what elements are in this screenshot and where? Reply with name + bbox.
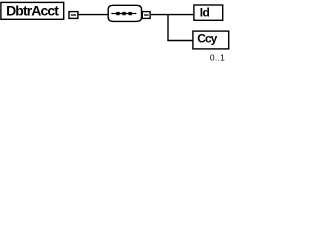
sequence compositor octagon bbox=[108, 5, 141, 21]
svg-text:Ccy: Ccy bbox=[197, 31, 217, 45]
sequence line bbox=[111, 13, 136, 15]
sequence dot 2 bbox=[122, 12, 125, 15]
sequence dot 3 bbox=[129, 12, 132, 15]
wire from DbtrAcct expand button to sequence bbox=[78, 14, 108, 16]
wire to Ccy bbox=[167, 40, 193, 42]
background bbox=[0, 0, 230, 73]
element box Id bbox=[194, 5, 223, 20]
expand button (sequence) bbox=[142, 12, 150, 19]
wire vertical branch bbox=[167, 14, 169, 41]
svg-text:0..1: 0..1 bbox=[210, 53, 225, 63]
element box DbtrAcct bbox=[1, 2, 64, 19]
svg-text:DbtrAcct: DbtrAcct bbox=[6, 3, 59, 19]
element box Ccy (optional) bbox=[193, 31, 229, 49]
svg-text:Id: Id bbox=[200, 6, 210, 20]
sequence dot 1 bbox=[116, 12, 119, 15]
wire from sequence to Id bbox=[151, 14, 194, 16]
expand button (DbtrAcct) bbox=[69, 12, 78, 19]
